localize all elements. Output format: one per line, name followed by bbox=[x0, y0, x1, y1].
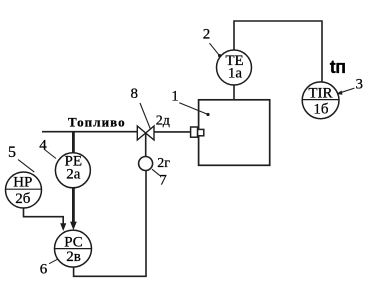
burner nozzle bbox=[191, 127, 198, 137]
pointer line 1 bbox=[179, 103, 208, 115]
wire HP output to PC arrow bbox=[24, 208, 64, 226]
wire PC bottom feedback bbox=[74, 267, 147, 277]
svg-text:1: 1 bbox=[171, 88, 179, 104]
svg-text:2в: 2в bbox=[66, 249, 81, 265]
furnace box 1 bbox=[199, 100, 270, 166]
svg-text:2а: 2а bbox=[66, 167, 81, 183]
arrowhead pointer 3 bbox=[337, 91, 343, 95]
instrument TIR 1b bbox=[302, 82, 339, 119]
pointer line 6 bbox=[49, 257, 61, 264]
pointer line 7 bbox=[152, 169, 160, 176]
wire TE bottom to furnace bbox=[233, 85, 235, 100]
arrowhead pointer 2 bbox=[218, 54, 221, 57]
instrument PE 2a bbox=[55, 153, 90, 188]
svg-text:8: 8 bbox=[131, 86, 139, 102]
instrument TE 1a bbox=[217, 50, 252, 85]
svg-text:2г: 2г bbox=[157, 156, 170, 171]
wire fuel line left bbox=[42, 131, 137, 133]
svg-text:5: 5 bbox=[8, 144, 16, 161]
svg-text:2б: 2б bbox=[15, 191, 31, 207]
pointer line 3 bbox=[337, 88, 354, 94]
wire TE to TIR top run bbox=[234, 21, 322, 83]
instrument PC 2v bbox=[55, 230, 92, 267]
svg-text:4: 4 bbox=[39, 137, 47, 153]
arrowhead thick into PC bbox=[70, 222, 77, 230]
instrument HP 2b bbox=[6, 172, 42, 208]
arrowhead pointer 1 bbox=[206, 113, 209, 116]
wire fuel line right bbox=[154, 131, 191, 133]
arrowhead thin from HP into PC bbox=[60, 223, 66, 231]
svg-text:tп: tп bbox=[330, 57, 346, 77]
valve stem bbox=[145, 133, 147, 157]
svg-text:TIR: TIR bbox=[308, 86, 332, 102]
svg-text:НР: НР bbox=[13, 175, 32, 191]
svg-text:2д: 2д bbox=[156, 113, 170, 128]
svg-text:1а: 1а bbox=[228, 66, 243, 82]
svg-text:1б: 1б bbox=[313, 102, 329, 118]
pointer line 2 bbox=[210, 43, 220, 55]
pointer line 4 bbox=[45, 150, 57, 159]
svg-text:3: 3 bbox=[356, 76, 364, 92]
pointer line 8 bbox=[140, 103, 150, 129]
svg-text:Топливо: Топливо bbox=[68, 115, 126, 130]
wire circle7 to bottom bbox=[145, 171, 147, 277]
sensor circle 7 bbox=[139, 157, 153, 171]
thick line fuel to PE bbox=[72, 132, 75, 154]
pointer line 5 bbox=[18, 160, 34, 173]
valve 2d body bbox=[137, 126, 154, 140]
svg-text:2: 2 bbox=[203, 27, 211, 43]
thick line PE to PC arrow bbox=[72, 188, 75, 223]
svg-text:7: 7 bbox=[159, 173, 167, 189]
svg-text:6: 6 bbox=[40, 262, 48, 278]
